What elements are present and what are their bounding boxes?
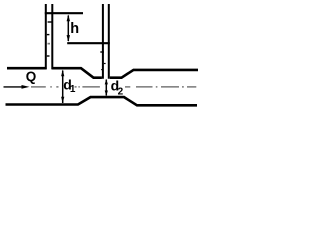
svg-text:1: 1 (70, 84, 76, 95)
svg-text:2: 2 (118, 86, 124, 97)
svg-text:Q: Q (26, 69, 37, 84)
svg-text:h: h (70, 21, 79, 37)
